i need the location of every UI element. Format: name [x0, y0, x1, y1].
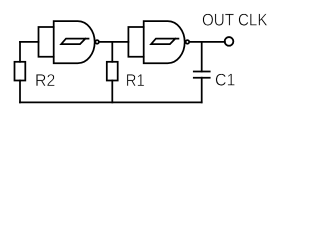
- wire: [201, 78, 203, 103]
- wire ground bus: [20, 101, 202, 103]
- svg-text:R2: R2: [35, 71, 55, 90]
- wire: [201, 42, 203, 72]
- NAND gate U1: [54, 21, 95, 63]
- svg-text:R1: R1: [126, 71, 145, 90]
- wire: [19, 42, 21, 62]
- bubble U2 output: [186, 40, 190, 44]
- bubble U1 output: [95, 40, 99, 44]
- wire: [19, 81, 21, 103]
- capacitor C1: [194, 72, 210, 78]
- wire: [100, 41, 129, 43]
- NAND gate U2: [144, 21, 185, 63]
- wire: [20, 41, 39, 43]
- resistor R2: [15, 62, 26, 81]
- node gate U2 input tie: [128, 27, 143, 57]
- hysteresis symbol U2: [151, 39, 178, 45]
- hysteresis symbol U1: [61, 39, 88, 45]
- svg-text:OUT CLK: OUT CLK: [202, 10, 268, 29]
- terminal OUT CLK: [225, 37, 234, 46]
- node gate U1 input tie: [39, 27, 54, 57]
- wire: [111, 81, 113, 103]
- wire: [190, 41, 225, 43]
- wire: [111, 42, 113, 62]
- svg-text:C1: C1: [215, 71, 235, 90]
- resistor R1: [107, 62, 118, 81]
